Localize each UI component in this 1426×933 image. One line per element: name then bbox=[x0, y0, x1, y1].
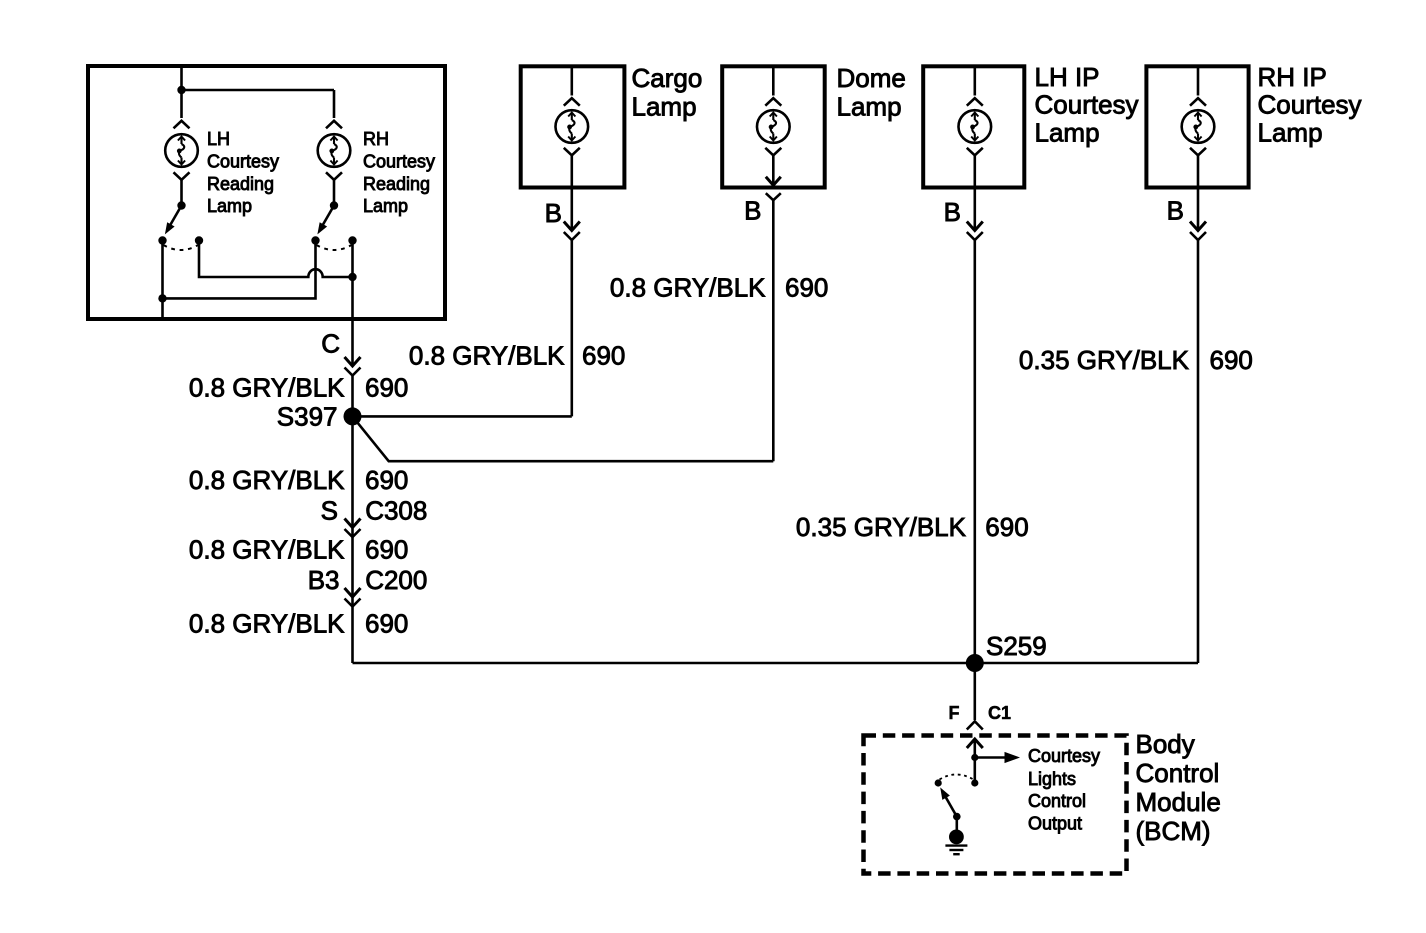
connector B3 C200 bbox=[345, 588, 361, 607]
wire: feed from box top to LH lamp bbox=[180, 66, 183, 118]
svg-text:690: 690 bbox=[365, 465, 408, 495]
connector B dome bbox=[766, 177, 781, 185]
svg-text:0.35 GRY/BLK: 0.35 GRY/BLK bbox=[1019, 345, 1190, 375]
svg-text:RH IP: RH IP bbox=[1258, 62, 1327, 92]
body control module dashed box bbox=[864, 736, 1127, 874]
svg-text:Lamp: Lamp bbox=[207, 196, 252, 216]
svg-text:C308: C308 bbox=[365, 496, 427, 526]
dome lamp box bbox=[722, 66, 825, 187]
wire: LH lamp to switch pivot bbox=[180, 180, 183, 206]
svg-text:Control: Control bbox=[1028, 791, 1086, 811]
svg-text:B: B bbox=[744, 196, 761, 226]
wire: ground bus horizontal bbox=[353, 662, 1199, 665]
svg-text:Lamp: Lamp bbox=[1035, 118, 1100, 148]
junction dot output bbox=[348, 273, 356, 281]
BCM switch right contact dot bbox=[971, 779, 978, 786]
connector chevron above LH courtesy reading lamp bbox=[174, 121, 190, 129]
RH IP courtesy lamp box bbox=[1146, 66, 1248, 187]
connector B RH IP bbox=[1190, 222, 1206, 241]
svg-text:690: 690 bbox=[1210, 345, 1253, 375]
connector Y below LH IP bulb bbox=[967, 148, 983, 156]
svg-text:LH IP: LH IP bbox=[1035, 62, 1100, 92]
connector Y below RH IP bulb bbox=[1190, 148, 1206, 156]
svg-text:Courtesy: Courtesy bbox=[1028, 746, 1100, 766]
junction dot feed split bbox=[177, 86, 185, 94]
junction dot left leg bbox=[158, 294, 166, 302]
svg-text:B3: B3 bbox=[308, 565, 340, 595]
svg-text:B: B bbox=[545, 198, 562, 228]
svg-text:Courtesy: Courtesy bbox=[1035, 90, 1139, 120]
wire: S397 diagonal branch to dome lamp bbox=[353, 416, 774, 461]
svg-text:Lamp: Lamp bbox=[363, 196, 408, 216]
svg-text:690: 690 bbox=[985, 512, 1028, 542]
svg-text:Module: Module bbox=[1136, 787, 1221, 817]
connector B LH IP bbox=[967, 222, 983, 241]
lamp cargo bulb bbox=[556, 110, 589, 143]
svg-text:690: 690 bbox=[785, 273, 828, 303]
wire: LH IP lamp feed bbox=[973, 66, 976, 95]
wire: LH left contact to box bottom bbox=[161, 241, 164, 318]
connector Y below RH lamp bbox=[326, 172, 342, 180]
connector F C1 chevron bbox=[967, 721, 983, 729]
BCM ground dot bbox=[949, 830, 964, 845]
svg-text:Lamp: Lamp bbox=[837, 92, 902, 122]
wire: cargo bulb to connector B bbox=[570, 155, 573, 230]
svg-text:F: F bbox=[949, 703, 960, 723]
LH switch right contact dot bbox=[195, 236, 203, 244]
BCM junction dot bbox=[971, 754, 978, 761]
wire: RH lamp to switch pivot bbox=[333, 180, 336, 206]
svg-text:0.8 GRY/BLK: 0.8 GRY/BLK bbox=[189, 534, 345, 564]
wire: S397 branch to cargo lamp bbox=[353, 415, 572, 418]
wire: cargo lamp feed bbox=[570, 66, 573, 95]
RH switch right contact dot bbox=[348, 236, 356, 244]
svg-text:Courtesy: Courtesy bbox=[363, 152, 435, 172]
svg-text:Lamp: Lamp bbox=[632, 92, 697, 122]
svg-text:C: C bbox=[321, 329, 340, 359]
svg-text:Courtesy: Courtesy bbox=[1258, 90, 1362, 120]
svg-text:Dome: Dome bbox=[837, 63, 906, 93]
svg-text:Lights: Lights bbox=[1028, 769, 1076, 789]
wire: RH IP lamp down to bus corner bbox=[1197, 240, 1200, 663]
svg-text:0.8 GRY/BLK: 0.8 GRY/BLK bbox=[189, 373, 345, 403]
wire: RH IP bulb to connector B bbox=[1197, 155, 1200, 230]
BCM switch arm bbox=[945, 795, 957, 817]
LH switch arm bbox=[169, 206, 182, 229]
svg-text:0.8 GRY/BLK: 0.8 GRY/BLK bbox=[610, 273, 766, 303]
wire: cargo lamp down to S397 branch bbox=[570, 240, 573, 416]
svg-text:0.8 GRY/BLK: 0.8 GRY/BLK bbox=[189, 465, 345, 495]
svg-text:Cargo: Cargo bbox=[632, 63, 703, 93]
wire: dome bulb to connector B bbox=[772, 155, 775, 185]
connector Y below dome bulb bbox=[765, 148, 781, 156]
BCM switch arm pivot dot bbox=[953, 813, 961, 821]
connector chevron above RH courtesy reading lamp bbox=[326, 121, 342, 129]
lamp LH courtesy reading bulb bbox=[165, 134, 198, 167]
splice S259 dot bbox=[966, 654, 984, 672]
connector S C308 bbox=[345, 519, 361, 538]
svg-text:690: 690 bbox=[582, 341, 625, 371]
lamp dome bulb bbox=[757, 110, 790, 143]
svg-text:(BCM): (BCM) bbox=[1136, 816, 1211, 846]
courtesy reading lamp assembly box bbox=[88, 66, 445, 319]
svg-text:Reading: Reading bbox=[363, 174, 430, 194]
wire: LH IP bulb to connector B bbox=[973, 155, 976, 230]
svg-text:LH: LH bbox=[207, 129, 230, 149]
wire: BCM junction to switch contact bbox=[973, 758, 976, 784]
svg-text:690: 690 bbox=[365, 534, 408, 564]
svg-text:B: B bbox=[1167, 196, 1184, 226]
svg-text:Reading: Reading bbox=[207, 174, 274, 194]
lamp LH IP bulb bbox=[959, 110, 992, 143]
LH IP courtesy lamp box bbox=[923, 66, 1024, 187]
wire: RH left contact down and across bbox=[163, 241, 316, 299]
svg-text:0.35 GRY/BLK: 0.35 GRY/BLK bbox=[796, 512, 967, 542]
wire: RH right contact out of box bbox=[351, 241, 354, 367]
BCM ground symbol bbox=[945, 844, 967, 846]
connector Y below LH lamp bbox=[174, 172, 190, 180]
svg-text:Control: Control bbox=[1136, 758, 1220, 788]
connector C below box bbox=[345, 357, 361, 376]
LH switch left contact dot bbox=[158, 236, 166, 244]
lamp RH courtesy reading bulb bbox=[318, 134, 351, 167]
svg-text:0.8 GRY/BLK: 0.8 GRY/BLK bbox=[409, 341, 565, 371]
BCM switch coupling dashed arc bbox=[940, 775, 974, 780]
wire: feed across to RH lamp bbox=[182, 90, 335, 118]
wire: dome lamp down to S397 branch bbox=[772, 200, 775, 461]
svg-text:690: 690 bbox=[365, 609, 408, 639]
svg-text:0.8 GRY/BLK: 0.8 GRY/BLK bbox=[189, 609, 345, 639]
svg-text:Courtesy: Courtesy bbox=[207, 152, 279, 172]
wire: main run down to bus bbox=[351, 376, 354, 664]
connector chevron above LH IP bulb bbox=[967, 98, 983, 106]
BCM switch left contact dot bbox=[935, 779, 942, 786]
svg-text:RH: RH bbox=[363, 129, 389, 149]
svg-text:B: B bbox=[944, 197, 961, 227]
svg-text:S: S bbox=[321, 496, 338, 526]
svg-text:C200: C200 bbox=[365, 565, 427, 595]
connector Y below cargo bulb bbox=[564, 148, 580, 156]
lamp RH IP bulb bbox=[1182, 110, 1215, 143]
svg-text:S259: S259 bbox=[986, 631, 1047, 661]
LH switch coupling dashed arc bbox=[164, 245, 199, 250]
svg-text:690: 690 bbox=[365, 373, 408, 403]
wire: RH IP lamp feed bbox=[1197, 66, 1200, 95]
RH switch pivot dot bbox=[330, 201, 338, 209]
connector chevron above dome bulb bbox=[765, 98, 781, 106]
RH switch coupling dashed arc bbox=[317, 245, 352, 250]
wire: LH right contact to output junction with hop bbox=[199, 241, 353, 278]
svg-text:Output: Output bbox=[1028, 813, 1082, 833]
svg-text:Body: Body bbox=[1136, 729, 1195, 759]
RH switch arm bbox=[321, 206, 334, 229]
wire: LH IP lamp down to S259 bbox=[973, 240, 976, 663]
LH switch pivot dot bbox=[177, 201, 185, 209]
BCM courtesy lights control output arrow bbox=[975, 756, 1006, 759]
connector B cargo bbox=[564, 222, 580, 241]
svg-text:Lamp: Lamp bbox=[1258, 118, 1323, 148]
connector chevron above cargo bulb bbox=[564, 98, 580, 106]
RH switch left contact dot bbox=[311, 236, 319, 244]
splice S397 dot bbox=[344, 407, 362, 425]
BCM internal arrow up from C1 bbox=[973, 739, 976, 758]
wire: arm to ground bbox=[955, 817, 958, 830]
connector chevron above RH IP bulb bbox=[1190, 98, 1206, 106]
wire: S259 down to BCM bbox=[973, 663, 976, 720]
svg-text:S397: S397 bbox=[277, 401, 338, 431]
wire: dome lamp feed bbox=[772, 66, 775, 95]
svg-text:C1: C1 bbox=[988, 703, 1011, 723]
cargo lamp box bbox=[521, 66, 625, 187]
